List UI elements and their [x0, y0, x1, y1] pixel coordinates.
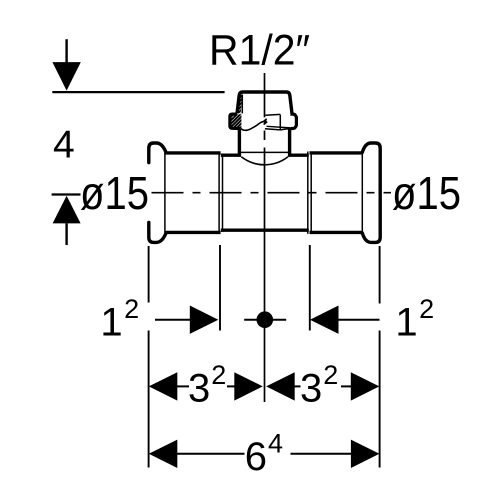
thread root line	[241, 95, 243, 114]
dimension 4: bottom tick	[52, 193, 81, 195]
svg-text:ø15: ø15	[80, 167, 149, 219]
dimension 4: top extension line	[52, 91, 224, 93]
right socket bottom edge	[310, 231, 364, 234]
section break wavy line	[241, 119, 268, 130]
right socket face line	[361, 152, 363, 233]
left socket face line	[164, 152, 166, 233]
dim row1 arrow right-pointing	[190, 306, 219, 334]
extension line left socket depth	[219, 245, 221, 331]
dim row1 right tail line	[338, 319, 380, 321]
tube edge seen through branch	[241, 151, 290, 153]
right bead	[362, 143, 380, 242]
dim row2 left connector	[177, 385, 189, 387]
extension line right end	[379, 246, 381, 468]
hex nut top facet edge	[266, 113, 281, 116]
dim row2 left arrow left-pointing	[149, 372, 178, 400]
left socket top edge	[165, 151, 220, 154]
left bead top hook	[149, 143, 166, 163]
hex nut facet line	[279, 115, 281, 130]
dim row2 mid-right connector	[294, 385, 300, 387]
left socket bottom edge	[165, 231, 220, 234]
hex nut left sectioned corner outline	[230, 114, 240, 128]
body top edge right of branch	[288, 153, 309, 156]
dim row3 right arrow right-pointing	[351, 440, 380, 468]
branch axis centerline / center extension line	[264, 148, 266, 403]
dim row2 arrow right-pointing at center	[234, 372, 262, 400]
branch axis centerline upper	[264, 73, 266, 140]
thread body R1/2	[237, 92, 292, 113]
hex nut chamfer edge line	[267, 126, 293, 128]
svg-text:R1/2″: R1/2″	[209, 27, 310, 75]
branch fillet saddle arc	[241, 157, 288, 165]
extension line right socket depth	[309, 245, 311, 331]
right socket top edge	[310, 151, 364, 154]
dim row2 arrow left-pointing at center	[266, 372, 295, 400]
dimension 4: down arrow with stem	[52, 39, 80, 90]
hex nut right outline	[290, 114, 296, 128]
hex nut bottom facet edges	[265, 128, 296, 130]
dim row2 right connector	[341, 385, 351, 387]
dim row1 arrow left-pointing	[310, 306, 339, 334]
branch neck left wall	[238, 129, 241, 157]
dimension 4: up arrow with stem	[53, 196, 81, 245]
extension line left end	[148, 246, 150, 468]
left socket end double lines	[219, 152, 222, 234]
dim row3 left line	[177, 453, 245, 455]
body top edge left of branch	[221, 153, 241, 156]
dim row2 right arrow right-pointing	[351, 372, 380, 400]
dim row1 left tail line	[155, 319, 191, 321]
dim row1 dot cross line	[244, 319, 286, 321]
body bottom edge	[221, 228, 309, 231]
right socket end double lines	[308, 152, 311, 234]
dim row3 left arrow left-pointing	[149, 440, 178, 468]
svg-text:ø15: ø15	[392, 167, 461, 219]
dim row1 center dot	[257, 311, 274, 328]
main axis centerline	[152, 192, 392, 194]
dim row3 right line	[291, 453, 352, 455]
thread section hatch	[194, 91, 281, 130]
branch neck right wall	[288, 129, 291, 157]
left bead bottom hook	[149, 222, 166, 242]
svg-text:4: 4	[53, 124, 75, 167]
dim row2 mid-left connector	[227, 385, 235, 387]
